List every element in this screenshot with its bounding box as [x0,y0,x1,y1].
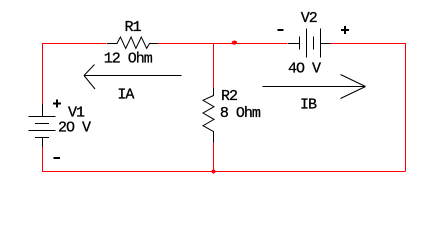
wire top-middle segment [158,43,288,45]
battery V1 plus sign [53,100,61,108]
svg-text:IB: IB [300,97,317,114]
wire bottom [42,171,406,173]
battery V1 [29,104,56,147]
battery V2 minus sign [278,29,284,31]
wire top-right segment [331,43,406,45]
svg-text:8 Ohm: 8 Ohm [220,105,261,122]
svg-text:V2: V2 [301,10,317,27]
svg-text:12 Ohm: 12 Ohm [104,51,153,68]
wire middle branch upper segment [213,43,215,88]
node A junction dot (on top wire) [232,41,237,45]
battery V1 minus sign [54,157,60,159]
current arrow IB (pointing right) [263,75,366,99]
resistor R1 [107,37,158,48]
svg-text:R1: R1 [125,19,142,36]
svg-text:2O V: 2O V [58,120,91,137]
svg-text:4O V: 4O V [288,61,321,78]
wire left lower segment [42,147,44,172]
battery V2 plus sign [341,26,349,34]
battery V2 [288,29,331,58]
wire top-left segment [42,43,107,45]
wire right side [405,43,407,172]
svg-text:R2: R2 [221,88,237,105]
resistor R2 [203,88,214,143]
wire middle branch lower segment [213,143,215,172]
current arrow IA (pointing left) [84,65,182,90]
node B junction dot (bottom wire / middle branch) [212,170,216,174]
wire left upper segment [42,43,44,104]
svg-text:IA: IA [117,87,134,104]
